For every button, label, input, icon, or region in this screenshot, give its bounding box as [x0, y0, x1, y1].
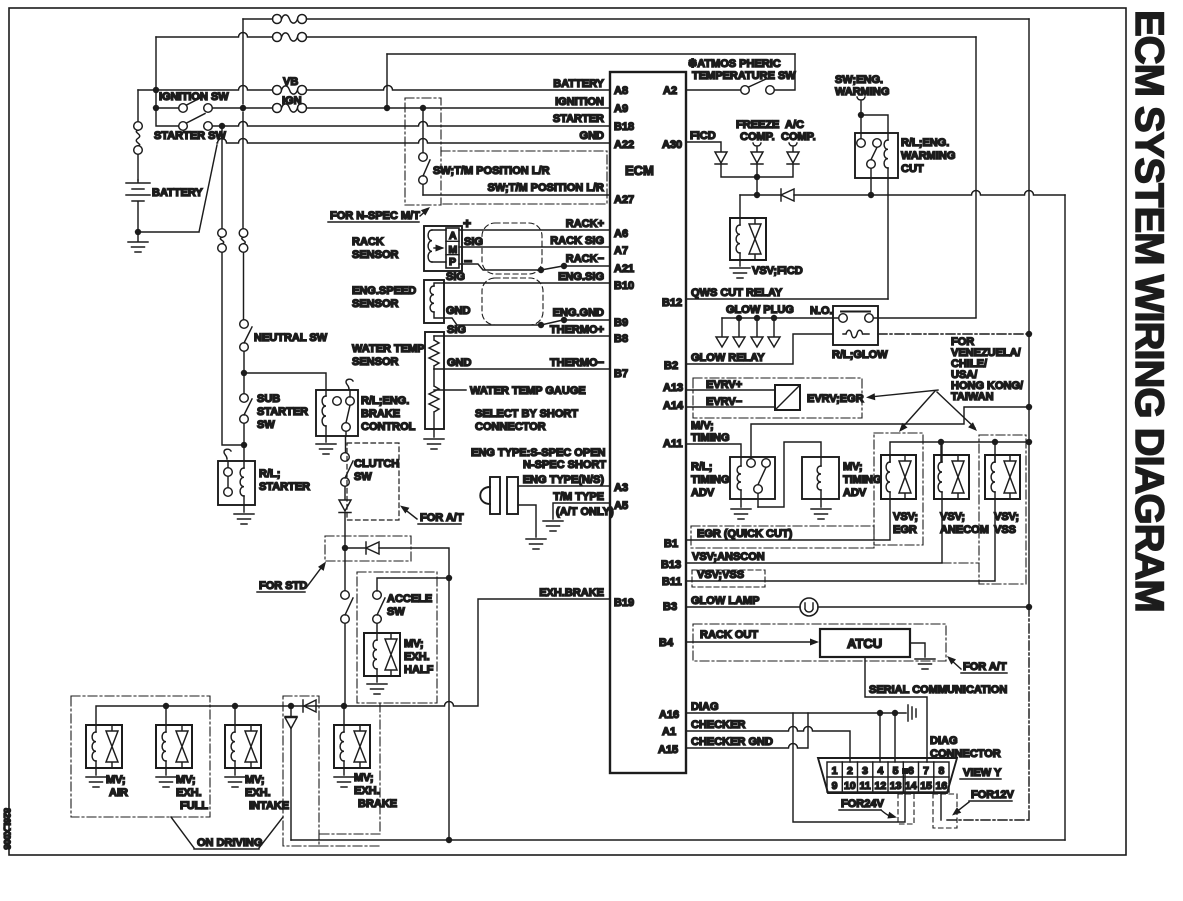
svg-text:SENSOR: SENSOR	[352, 298, 399, 310]
svg-text:FOR STD: FOR STD	[259, 580, 307, 592]
svg-text:ATCU: ATCU	[847, 636, 882, 651]
svg-text:SENSOR: SENSOR	[352, 356, 399, 368]
wire glow plug bus	[722, 317, 839, 319]
starter switch	[179, 114, 213, 131]
svg-text:BATTERY: BATTERY	[553, 78, 604, 90]
switch atmos temperature	[741, 79, 775, 94]
svg-text:A6: A6	[614, 228, 628, 240]
svg-text:RACK OUT: RACK OUT	[700, 629, 758, 641]
svg-text:CONNECTOR: CONNECTOR	[475, 421, 546, 433]
dash-dot box accele	[357, 572, 437, 703]
svg-text:GND: GND	[447, 357, 472, 369]
wire fuse1 feed y19	[243, 18, 1029, 20]
svg-text:SENSOR: SENSOR	[352, 249, 399, 261]
wire warming node	[861, 115, 888, 139]
ground T/M	[543, 521, 563, 531]
svg-text:8: 8	[938, 765, 944, 777]
wire GLOW RELAY B2	[686, 334, 833, 364]
wire exh brake feed y548	[345, 548, 449, 575]
fuse F1	[273, 15, 307, 24]
diode FICD	[715, 152, 727, 164]
svg-text:FOR12V: FOR12V	[971, 789, 1014, 801]
wire glow coil dashdot	[878, 333, 1029, 335]
svg-text:R/L;GLOW: R/L;GLOW	[832, 349, 888, 361]
svg-text:N.O.: N.O.	[810, 305, 833, 317]
svg-text:A9: A9	[614, 103, 628, 115]
svg-text:CHECKER: CHECKER	[691, 719, 745, 731]
wire ENG.SIG B10	[444, 282, 610, 284]
dashed box FOR A/T	[347, 443, 399, 520]
svg-text:MV;: MV;	[245, 774, 265, 786]
wire to brake control relay	[244, 373, 326, 390]
svg-text:CONTROL: CONTROL	[361, 421, 416, 433]
svg-text:※ATMOS PHERIC: ※ATMOS PHERIC	[688, 58, 781, 70]
svg-text:RACK SIG: RACK SIG	[550, 235, 604, 247]
pointer to EVRV	[870, 390, 938, 397]
svg-text:TIMING: TIMING	[843, 474, 882, 486]
battery riser	[137, 90, 139, 180]
diode branch riser x291	[290, 706, 292, 840]
diode y195	[781, 189, 794, 201]
ground timing relay	[731, 509, 751, 519]
svg-text:B8: B8	[614, 333, 628, 345]
wire accele feed	[377, 578, 449, 591]
svg-text:R/L;ENG.: R/L;ENG.	[901, 137, 949, 149]
wire diode to node	[344, 513, 346, 549]
svg-text:FOR24V: FOR24V	[841, 798, 884, 810]
solenoid VSV;ANECOM	[934, 455, 969, 499]
svg-text:VSV;: VSV;	[940, 511, 965, 523]
wire riser x449	[448, 578, 450, 840]
ignition switch	[179, 96, 213, 113]
svg-text:7: 7	[923, 765, 929, 777]
wire VB A8	[138, 86, 610, 91]
svg-text:EVRV+: EVRV+	[706, 379, 742, 391]
glow plug 1	[721, 318, 723, 336]
svg-text:M/V;: M/V;	[691, 420, 714, 432]
svg-text:R/L;: R/L;	[259, 468, 280, 480]
wire clutch to diode	[344, 486, 346, 499]
wire atmos feed y54	[387, 53, 795, 55]
rack sensor	[424, 226, 462, 271]
pointer FOR A/T right	[950, 659, 961, 669]
ground MV EXH HALF	[376, 676, 378, 682]
relay R/L;ENG.WARMING CUT	[855, 133, 898, 178]
wire RACK SIG A7	[459, 246, 610, 248]
ground ATCU	[915, 659, 935, 669]
wire GND A22	[138, 139, 610, 233]
diag connector shell	[818, 758, 957, 793]
node pin6	[902, 768, 908, 774]
svg-text:A27: A27	[614, 194, 634, 206]
svg-text:EXH.BRAKE: EXH.BRAKE	[539, 587, 604, 599]
svg-text:B13: B13	[661, 559, 681, 571]
wire glow contact to x976	[873, 317, 976, 319]
svg-text:MV;: MV;	[404, 638, 424, 650]
svg-text:10: 10	[844, 780, 856, 792]
dash-dot box MV air full	[71, 696, 210, 817]
clutch switch	[341, 453, 353, 487]
diode ac comp	[787, 152, 799, 164]
pointer FOR12V	[955, 802, 969, 813]
glow plug 2	[738, 318, 740, 336]
wire timing adv feed	[758, 442, 821, 507]
connector pair x222	[218, 229, 227, 253]
wire riser x387	[386, 54, 388, 108]
svg-text:A30: A30	[662, 139, 682, 151]
svg-text:GLOW LAMP: GLOW LAMP	[691, 595, 759, 607]
ground MV EXH INTAKE	[234, 768, 236, 775]
svg-text:15: 15	[920, 780, 932, 792]
svg-text:STARTER: STARTER	[257, 406, 308, 418]
dash-dot box FOR A/T atcu	[693, 624, 946, 661]
clutch lower switch	[341, 591, 353, 624]
dash-dot box N-SPEC M/T switch	[405, 98, 441, 205]
fuse VB	[273, 86, 307, 95]
pointer to VSV EGR	[901, 391, 935, 429]
svg-text:3: 3	[862, 765, 868, 777]
svg-text:A14: A14	[663, 400, 684, 412]
svg-text:A13: A13	[663, 382, 683, 394]
ATCU box	[820, 629, 910, 657]
stub MV full	[165, 706, 167, 725]
svg-text:A/C: A/C	[785, 119, 804, 131]
svg-text:THERMO+: THERMO+	[550, 324, 604, 336]
battery	[126, 180, 150, 232]
wire RACK- A21	[459, 264, 610, 270]
fusible link battery	[134, 122, 143, 155]
wire for12v dashdot	[947, 607, 1029, 820]
pointer FOR24V	[881, 810, 894, 817]
svg-text:ECM SYSTEM WIRING DIAGRAM: ECM SYSTEM WIRING DIAGRAM	[1127, 10, 1171, 612]
glow plug 4	[773, 318, 775, 336]
switch sw eng warming	[857, 97, 865, 112]
wire riser x156	[156, 37, 179, 126]
svg-text:RACK: RACK	[352, 236, 384, 248]
svg-text:5: 5	[893, 765, 899, 777]
wire STARTER B18	[212, 122, 610, 127]
svg-text:VIEW Y: VIEW Y	[963, 767, 1002, 779]
svg-text:VSS: VSS	[994, 524, 1016, 536]
svg-text:TIMING: TIMING	[691, 432, 730, 444]
wire sub starter to relay	[243, 423, 245, 461]
svg-text:VSV;: VSV;	[994, 511, 1019, 523]
svg-text:SW: SW	[387, 606, 405, 618]
dash-dot box EVRV	[693, 378, 862, 418]
svg-text:VSV;ANSCON: VSV;ANSCON	[692, 551, 765, 563]
diode vertical x291	[285, 717, 297, 729]
solenoid VSV;FICD	[730, 218, 766, 260]
svg-text:A7: A7	[614, 245, 628, 257]
svg-text:B11: B11	[662, 576, 682, 588]
svg-text:9: 9	[832, 780, 838, 792]
svg-text:WARMING: WARMING	[901, 150, 955, 162]
pointer ON DRIVING left	[171, 817, 194, 848]
svg-text:R/L;ENG.: R/L;ENG.	[361, 395, 409, 407]
wire fuse2 feed y37	[156, 33, 976, 38]
svg-text:HALF: HALF	[404, 664, 434, 676]
svg-text:2: 2	[847, 765, 853, 777]
dash-dot row anscon	[942, 562, 979, 564]
svg-text:4: 4	[877, 765, 883, 777]
svg-text:12: 12	[875, 780, 887, 792]
svg-text:SELECT BY SHORT: SELECT BY SHORT	[475, 408, 578, 420]
svg-text:VB: VB	[283, 76, 298, 88]
svg-text:A16: A16	[659, 709, 679, 721]
svg-text:DIAG: DIAG	[930, 735, 958, 747]
node battery minus	[135, 229, 141, 235]
shield capsule speed	[482, 278, 543, 325]
svg-text:RACK+: RACK+	[566, 218, 604, 230]
relay R/L;TIMING ADV	[730, 457, 775, 507]
fuse IGN	[273, 104, 307, 113]
svg-text:DIAG: DIAG	[691, 701, 719, 713]
diode clutch line	[339, 500, 351, 513]
dashed box FOR24V	[898, 794, 914, 824]
svg-text:VSV;VSS: VSV;VSS	[697, 569, 744, 581]
svg-text:SW;T/M POSITION L/R: SW;T/M POSITION L/R	[487, 182, 604, 194]
relay R/L;ENG.BRAKE CONTROL	[316, 379, 358, 442]
pointer FOR A/T	[403, 508, 417, 519]
wire bottom bus y840	[291, 839, 1065, 841]
svg-text:A21: A21	[614, 263, 634, 275]
svg-text:SERIAL COMMUNICATION: SERIAL COMMUNICATION	[869, 684, 1007, 696]
svg-text:TAIWAN: TAIWAN	[951, 391, 994, 403]
svg-text:EXH.: EXH.	[404, 651, 430, 663]
svg-text:STARTER: STARTER	[553, 113, 604, 125]
wire short conn ground	[518, 505, 536, 537]
water temp sensor	[425, 332, 444, 429]
wire pin4 riser	[879, 713, 881, 762]
wire pin5 riser	[894, 713, 896, 762]
svg-text:A11: A11	[663, 438, 683, 450]
svg-text:EVRV;EGR: EVRV;EGR	[807, 393, 864, 405]
sub starter switch	[240, 394, 252, 424]
wire accele to MV	[376, 623, 378, 633]
ground brake control coil	[316, 444, 336, 454]
svg-text:(A/T ONLY): (A/T ONLY)	[556, 506, 614, 518]
svg-text:MV;: MV;	[106, 774, 126, 786]
wire chain x222	[222, 126, 241, 445]
svg-text:ENG TYPE(N/S): ENG TYPE(N/S)	[523, 474, 605, 486]
svg-text:FOR N-SPEC M/T: FOR N-SPEC M/T	[330, 210, 420, 222]
svg-text:BRAKE: BRAKE	[361, 408, 400, 420]
connector pair x243	[239, 229, 248, 253]
wire EVRV- A14	[686, 406, 775, 408]
svg-text:BRAKE: BRAKE	[358, 798, 397, 810]
svg-text:WATER TEMP GAUGE: WATER TEMP GAUGE	[470, 385, 586, 397]
svg-text:6: 6	[908, 765, 914, 777]
wire IGN A9	[156, 107, 610, 109]
svg-text:P: P	[449, 256, 456, 268]
svg-text:TIMING: TIMING	[691, 474, 730, 486]
ground MV EXH FULL	[165, 768, 167, 775]
stub MV intake	[234, 706, 236, 725]
svg-text:IGN: IGN	[282, 95, 302, 107]
svg-text:ENG TYPE:S-SPEC OPEN: ENG TYPE:S-SPEC OPEN	[471, 447, 606, 459]
svg-text:AIR: AIR	[109, 787, 128, 799]
solenoid MV;EXH.HALF	[364, 633, 400, 676]
EVRV EGR valve box	[775, 385, 800, 410]
ground short connector	[526, 539, 546, 549]
svg-text:CLUTCH: CLUTCH	[354, 458, 399, 470]
svg-text:13: 13	[890, 780, 902, 792]
svg-text:NEUTRAL SW: NEUTRAL SW	[254, 332, 328, 344]
svg-text:GND: GND	[580, 130, 605, 142]
pointer to VSV VSS	[937, 392, 975, 428]
svg-text:ENG.GND: ENG.GND	[553, 307, 604, 319]
svg-text:B7: B7	[614, 368, 628, 380]
svg-text:16: 16	[936, 780, 948, 792]
wire EXH.BRAKE B19	[96, 599, 610, 725]
svg-text:11: 11	[860, 780, 871, 792]
wire ATCU ground	[910, 643, 925, 657]
neutral switch	[240, 320, 252, 352]
svg-text:SW;ENG.: SW;ENG.	[835, 74, 883, 86]
svg-text:SW;T/M POSITION L/R: SW;T/M POSITION L/R	[433, 165, 550, 177]
svg-text:TEMPERATURE SW: TEMPERATURE SW	[692, 70, 796, 82]
svg-text:B18: B18	[614, 121, 634, 133]
dash-dot box FOR STD	[325, 536, 411, 561]
svg-text:ENG.SPEED: ENG.SPEED	[352, 285, 416, 297]
ground battery	[137, 232, 139, 241]
wire THERMO- B7	[444, 368, 610, 370]
svg-text:EVRV−: EVRV−	[706, 396, 742, 408]
svg-text:FULL: FULL	[180, 800, 208, 812]
svg-text:QWS CUT RELAY: QWS CUT RELAY	[691, 287, 783, 299]
wire riser x976	[975, 37, 977, 317]
svg-text:STARTER SW: STARTER SW	[154, 130, 227, 142]
wire FICD A30	[686, 142, 721, 151]
svg-text:A8: A8	[614, 85, 628, 97]
svg-text:B1: B1	[664, 538, 678, 550]
solenoid VSV;EGR	[881, 455, 916, 499]
svg-text:EXH.: EXH.	[354, 785, 380, 797]
dash-dot box VSV VSS text	[692, 570, 765, 587]
svg-text:THERMO−: THERMO−	[550, 357, 604, 369]
stub MV brake	[343, 706, 345, 725]
svg-text:COMP.: COMP.	[740, 131, 775, 143]
svg-text:ECM: ECM	[625, 163, 654, 178]
svg-text:CHECKER GND: CHECKER GND	[691, 736, 773, 748]
wire clutch chain lower	[344, 548, 346, 706]
wire A16 DIAG	[686, 712, 906, 714]
solenoid MV;TIMING ADV	[802, 457, 839, 507]
wire main feed x1029	[1028, 19, 1030, 607]
stub vss top	[994, 442, 996, 462]
svg-text:B12: B12	[662, 297, 682, 309]
wire pin16 riser	[940, 793, 942, 820]
svg-text:N-SPEC SHORT: N-SPEC SHORT	[523, 459, 606, 471]
wire chain x243	[242, 19, 245, 320]
wire QWS CUT RELAY B12	[686, 298, 888, 300]
wire water temp gauge	[444, 389, 466, 391]
svg-text:EGR: EGR	[893, 524, 917, 536]
svg-text:−: −	[464, 253, 472, 269]
svg-text:A3: A3	[614, 482, 628, 494]
wire right loop x1065	[1064, 195, 1066, 840]
wire THERMO+ B8	[444, 335, 610, 337]
wire B3 glow lamp	[686, 606, 1029, 608]
svg-text:ON DRIVING: ON DRIVING	[197, 837, 262, 849]
svg-text:B4: B4	[659, 637, 674, 649]
svg-text:EXH.: EXH.	[245, 787, 271, 799]
glow lamp	[800, 598, 818, 616]
wire diode join y177	[721, 165, 793, 177]
wire ENG TYPE A3	[518, 485, 610, 487]
shield capsule rack	[482, 223, 542, 274]
fuse F2	[273, 33, 307, 42]
dash-dot box MV exh brake	[319, 703, 380, 846]
wire brake relay to clutch sw	[345, 436, 347, 453]
svg-text:B10: B10	[614, 280, 634, 292]
svg-text:EXH.: EXH.	[176, 787, 202, 799]
wire B13 VSV ANSCON	[686, 499, 942, 563]
pointer FOR N-SPEC	[420, 209, 428, 216]
chassis ground diag	[908, 705, 916, 721]
wire VSV common y442	[890, 442, 1029, 462]
dash-dot box VSV EGR	[874, 433, 923, 545]
wire B1 EGR quick cut	[686, 499, 890, 540]
wire A27	[423, 194, 610, 196]
svg-text:ANECOM: ANECOM	[940, 524, 989, 536]
wire warming sw to y195	[870, 178, 872, 195]
svg-text:SIG: SIG	[464, 236, 483, 248]
svg-text:GND: GND	[446, 305, 471, 317]
wire ENG.GND B9	[444, 318, 610, 325]
svg-text:GLOW PLUG: GLOW PLUG	[726, 304, 794, 316]
eng speed sensor	[424, 280, 444, 323]
diode y548	[366, 542, 379, 554]
relay R/L;STARTER	[218, 449, 255, 512]
ECM box U1	[610, 72, 686, 773]
svg-text:+: +	[463, 215, 471, 231]
svg-text:826LX008: 826LX008	[2, 808, 12, 850]
glow plug 3	[756, 318, 758, 336]
svg-text:MV;: MV;	[843, 461, 863, 473]
svg-text:A15: A15	[658, 744, 678, 756]
svg-text:CONNECTOR: CONNECTOR	[930, 748, 1001, 760]
dash-dot box SW;T/M wide	[441, 151, 607, 204]
stub anecom top	[941, 442, 942, 462]
svg-text:B9: B9	[614, 317, 628, 329]
solenoid VSV;VSS	[985, 455, 1020, 499]
accele switch	[373, 591, 385, 624]
wire QWS riser x889	[887, 168, 889, 299]
svg-text:FREEZE: FREEZE	[736, 119, 779, 131]
svg-text:SW: SW	[354, 471, 372, 483]
svg-text:SIG: SIG	[446, 271, 465, 283]
svg-text:WARMING: WARMING	[835, 86, 889, 98]
wire A15 CHECKER GND	[686, 713, 808, 748]
svg-text:RACK−: RACK−	[566, 253, 604, 265]
wire serial communication	[865, 657, 927, 762]
wire A11 M/V timing	[686, 444, 741, 466]
solenoid MV;AIR	[86, 725, 122, 768]
wire B11 VSV VSS	[686, 499, 995, 581]
svg-text:ADV: ADV	[691, 487, 715, 499]
dash-dot box VSV VSS	[979, 435, 1026, 584]
svg-text:GLOW RELAY: GLOW RELAY	[691, 352, 765, 364]
svg-text:IGNITION SW: IGNITION SW	[159, 91, 229, 103]
wire ficd node to y195	[756, 177, 758, 195]
wire corner x740 to VSV FICD	[739, 195, 741, 218]
svg-text:EGR (QUICK CUT): EGR (QUICK CUT)	[697, 528, 793, 540]
svg-text:VSV;: VSV;	[893, 511, 918, 523]
wire B4 RACK OUT	[686, 641, 814, 643]
svg-text:SIG: SIG	[447, 324, 466, 336]
ground MV EXH BRAKE	[343, 768, 345, 775]
